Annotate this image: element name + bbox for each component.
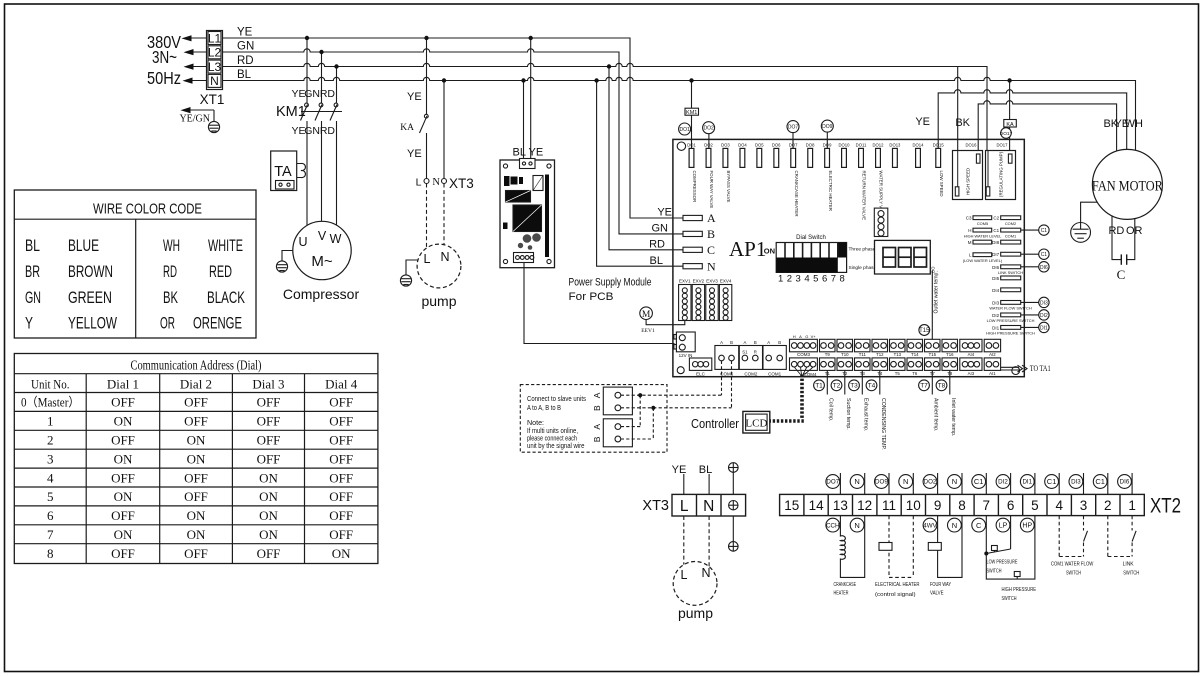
fan motor xyxy=(1092,149,1162,219)
connector DO11 xyxy=(856,143,867,221)
svg-text:T2: T2 xyxy=(833,383,841,390)
label CRANKCASE HEATER xyxy=(834,582,857,597)
svg-text:OFF: OFF xyxy=(329,433,353,448)
svg-text:If multi units online,: If multi units online, xyxy=(527,428,578,435)
svg-text:RD: RD xyxy=(1108,225,1124,237)
circled label C1 xyxy=(1039,249,1049,259)
svg-text:6: 6 xyxy=(47,508,54,523)
table headers xyxy=(31,377,358,392)
wire DO16 high speed riser xyxy=(957,67,959,188)
input terminal C3 xyxy=(966,216,992,226)
svg-text:DO4: DO4 xyxy=(738,143,747,148)
connector block COM1 xyxy=(763,340,786,377)
svg-text:OFF: OFF xyxy=(184,489,208,504)
svg-text:DI2: DI2 xyxy=(998,479,1008,486)
wire KM1 phase W RD drop xyxy=(336,67,338,104)
svg-text:ON: ON xyxy=(332,546,351,561)
wire BL stub xyxy=(708,474,710,494)
svg-text:XT2: XT2 xyxy=(1150,495,1181,518)
svg-text:CONDENSING TEMP.: CONDENSING TEMP. xyxy=(880,398,886,450)
svg-text:Y: Y xyxy=(25,315,33,333)
svg-text:Suction temp.: Suction temp. xyxy=(845,398,851,430)
connector COM3 xyxy=(790,334,818,357)
svg-text:SWITCH: SWITCH xyxy=(1002,596,1017,602)
svg-text:SWITCH: SWITCH xyxy=(987,569,1002,575)
module capacitors xyxy=(518,233,541,250)
svg-text:N: N xyxy=(703,498,714,515)
svg-text:OFF: OFF xyxy=(329,508,353,523)
circled label T2 xyxy=(831,380,842,391)
svg-text:RD: RD xyxy=(320,88,336,100)
svg-text:B: B xyxy=(778,340,781,345)
svg-text:KA: KA xyxy=(400,123,414,133)
svg-text:DI2: DI2 xyxy=(992,313,1000,318)
connector DO12 xyxy=(873,143,885,219)
communication address table xyxy=(14,354,378,564)
svg-text:OFF: OFF xyxy=(184,395,208,410)
connector EEV5 4-pin xyxy=(874,208,888,236)
circled label DO9 xyxy=(821,120,833,148)
svg-text:C: C xyxy=(707,243,715,257)
svg-text:For PCB: For PCB xyxy=(569,291,614,303)
XT2 stub above cell 5 xyxy=(1034,473,1036,494)
svg-text:A: A xyxy=(707,211,716,225)
connector block EXV1-EXV4 xyxy=(679,278,732,320)
svg-text:OFF: OFF xyxy=(257,546,281,561)
fan ground wire xyxy=(1081,202,1098,222)
svg-text:DO17: DO17 xyxy=(997,143,1009,148)
labels YE BL xyxy=(672,464,713,476)
svg-text:Power Supply Module: Power Supply Module xyxy=(569,277,652,289)
relay box KM1 on DO1 wire xyxy=(685,108,699,116)
junction dot RD-C xyxy=(607,64,611,68)
module input connector xyxy=(520,159,536,169)
svg-text:RD: RD xyxy=(237,55,254,67)
pump motor dashed circle xyxy=(417,244,461,288)
pump terminals L N xyxy=(424,250,450,266)
connector DO10 xyxy=(839,143,851,168)
connector DO13 xyxy=(889,143,901,168)
XT2 stub above cell 7 xyxy=(985,473,987,494)
connector T6 xyxy=(907,358,923,376)
input terminal H xyxy=(964,228,1002,238)
fan ground symbol xyxy=(1071,223,1091,243)
svg-text:XT3: XT3 xyxy=(642,498,669,514)
7-segment display xyxy=(875,240,936,274)
svg-text:DO7: DO7 xyxy=(789,143,798,148)
svg-text:DI8: DI8 xyxy=(992,240,1000,245)
svg-text:COM1: COM1 xyxy=(768,372,781,377)
svg-text:T9: T9 xyxy=(825,352,831,357)
connector block COM2 xyxy=(739,340,762,377)
svg-text:DO9: DO9 xyxy=(823,143,832,148)
sensor wire T1 xyxy=(826,370,828,394)
svg-text:OFF: OFF xyxy=(111,433,135,448)
svg-text:50Hz: 50Hz xyxy=(147,68,181,88)
pump ground wire xyxy=(406,260,418,275)
electrical heater relay box xyxy=(879,543,892,551)
circled label N below cell 12 xyxy=(850,518,864,532)
wire fan BK line xyxy=(978,101,1116,155)
svg-text:COM5: COM5 xyxy=(977,221,988,226)
svg-text:COM1: COM1 xyxy=(1005,233,1016,238)
svg-text:N: N xyxy=(903,477,908,486)
PE symbol lower xyxy=(729,542,739,552)
wire L3 RD bus xyxy=(223,63,988,187)
svg-text:HIGH SPEED: HIGH SPEED xyxy=(966,168,971,195)
pump motor 2 dashed circle xyxy=(673,562,717,606)
HP switch symbol xyxy=(1014,572,1020,580)
svg-text:12: 12 xyxy=(857,498,872,513)
XT2 stub above cell 9 xyxy=(937,473,939,494)
svg-text:L3: L3 xyxy=(208,60,222,74)
svg-text:Unit No.: Unit No. xyxy=(31,377,70,392)
junction dot L3-W xyxy=(334,64,338,68)
svg-text:4WV: 4WV xyxy=(923,522,937,529)
svg-text:XT3: XT3 xyxy=(449,176,474,191)
svg-text:6: 6 xyxy=(1007,498,1015,513)
shielded cable COM4 to LCD xyxy=(771,375,804,422)
DIP switch body xyxy=(776,243,846,273)
connector DO4 xyxy=(738,143,747,168)
svg-text:ON: ON xyxy=(114,489,133,504)
svg-text:T1: T1 xyxy=(815,383,823,390)
input terminal DI2 xyxy=(987,313,1035,323)
circled label 4WV below cell 9 xyxy=(923,518,937,532)
svg-text:H: H xyxy=(968,228,971,233)
sensor wire T15 xyxy=(931,271,933,340)
svg-text:COM4: COM4 xyxy=(803,372,816,377)
svg-text:DO1: DO1 xyxy=(687,143,696,148)
svg-text:CRANKCASE HEATER: CRANKCASE HEATER xyxy=(794,171,799,217)
arrow L2 xyxy=(184,49,207,55)
svg-text:3N~: 3N~ xyxy=(152,47,177,67)
junction dot LP/HP xyxy=(984,552,988,556)
XT2 stub above cell 12 xyxy=(864,473,866,494)
svg-text:T13: T13 xyxy=(894,352,902,357)
svg-text:pump: pump xyxy=(678,605,713,621)
svg-text:(REGULATING PUMP): (REGULATING PUMP) xyxy=(999,151,1004,197)
svg-text:YE/GN: YE/GN xyxy=(179,114,210,125)
high pressure switch circuit xyxy=(986,516,1035,580)
wire KA coil DO17 drop xyxy=(1009,81,1011,155)
svg-text:T15: T15 xyxy=(929,352,937,357)
svg-text:3: 3 xyxy=(796,274,801,285)
svg-text:U: U xyxy=(298,235,307,249)
table data rows xyxy=(21,395,353,561)
svg-text:B: B xyxy=(592,405,602,411)
display LCD xyxy=(743,411,770,433)
svg-text:EXV4: EXV4 xyxy=(720,278,732,283)
wire L1 YE bus xyxy=(223,38,684,218)
wire YE stub xyxy=(683,474,685,494)
connector T12 xyxy=(872,339,888,357)
svg-text:OFF: OFF xyxy=(111,470,135,485)
connector 12V IN xyxy=(674,332,695,358)
svg-text:14: 14 xyxy=(809,498,825,513)
svg-text:0（Master）: 0（Master） xyxy=(21,396,80,410)
svg-text:AP1: AP1 xyxy=(729,237,766,261)
capacitor C plates xyxy=(1121,254,1126,264)
svg-text:ELECTRICAL HEATER: ELECTRICAL HEATER xyxy=(875,582,920,588)
svg-text:5: 5 xyxy=(47,489,54,504)
svg-text:LINK: LINK xyxy=(1123,562,1134,568)
connector DO2 xyxy=(704,143,714,209)
svg-text:EXV2: EXV2 xyxy=(693,278,705,283)
svg-text:KA: KA xyxy=(1006,122,1014,128)
svg-text:BL: BL xyxy=(237,69,252,81)
junction dot BL-N xyxy=(594,78,598,82)
svg-text:AI1: AI1 xyxy=(989,371,996,376)
circled label T7 xyxy=(919,380,930,391)
svg-text:DO7: DO7 xyxy=(788,125,799,131)
connector COM4 xyxy=(790,358,818,377)
svg-text:W: W xyxy=(330,232,342,246)
XT3 PE cell symbol xyxy=(729,501,738,510)
connector AI1 xyxy=(984,358,1000,376)
svg-text:COM2: COM2 xyxy=(744,372,757,377)
circled label DI6 xyxy=(1039,262,1049,272)
connector DO9 xyxy=(823,143,833,211)
circled label T15 xyxy=(919,325,930,336)
svg-text:FOUR WAY: FOUR WAY xyxy=(930,582,951,588)
input terminal DI7 xyxy=(992,252,1021,257)
module transformer large xyxy=(513,205,542,232)
svg-text:Connect to slave units: Connect to slave units xyxy=(527,396,586,403)
svg-text:Exhaust temp.: Exhaust temp. xyxy=(862,398,868,431)
connector DO15 xyxy=(933,143,945,197)
junction dot BL-module xyxy=(521,78,525,82)
svg-text:Inlet water temp.: Inlet water temp. xyxy=(950,398,956,436)
svg-text:EXV1: EXV1 xyxy=(679,278,691,283)
input terminal DI6 xyxy=(992,265,1023,275)
dashed wire L to pump xyxy=(426,184,428,249)
relay box KA1 xyxy=(1004,120,1017,128)
wire L2 GN bus xyxy=(223,49,684,234)
svg-text:WH: WH xyxy=(1125,118,1143,130)
svg-text:7: 7 xyxy=(831,274,836,285)
XT2 stub above cell 3 xyxy=(1083,473,1085,494)
svg-text:N: N xyxy=(952,477,957,486)
svg-text:RD: RD xyxy=(649,239,665,251)
bus wire labels YE GN RD BL xyxy=(237,27,254,82)
svg-text:COM3: COM3 xyxy=(797,352,810,357)
svg-text:LOW PRESSURE: LOW PRESSURE xyxy=(987,560,1018,566)
svg-text:OFF: OFF xyxy=(111,508,135,523)
XT2 stub above cell 13 xyxy=(839,473,841,494)
wire module YE drop xyxy=(530,38,532,159)
svg-text:10: 10 xyxy=(906,498,921,513)
svg-text:Dial 4: Dial 4 xyxy=(325,377,358,392)
fan capacitor wires xyxy=(1112,216,1135,260)
module output connector xyxy=(514,253,534,263)
svg-text:Coil temp.: Coil temp. xyxy=(827,398,833,421)
svg-text:A: A xyxy=(592,424,602,430)
svg-text:DI3: DI3 xyxy=(1071,479,1081,486)
svg-text:T14: T14 xyxy=(911,352,919,357)
svg-text:AI4: AI4 xyxy=(968,352,975,357)
control board AP1 outline xyxy=(673,139,1024,376)
svg-text:Compressor: Compressor xyxy=(283,286,360,302)
XT3 ground wire down xyxy=(732,516,734,542)
svg-text:YE: YE xyxy=(237,27,253,39)
svg-text:DO9: DO9 xyxy=(875,479,888,486)
svg-text:13: 13 xyxy=(833,498,848,513)
svg-text:1: 1 xyxy=(778,274,783,285)
svg-text:(control signal): (control signal) xyxy=(875,592,916,598)
connector T7 xyxy=(925,358,941,376)
svg-text:ON: ON xyxy=(187,508,206,523)
svg-text:4: 4 xyxy=(47,470,54,485)
svg-text:pump: pump xyxy=(421,293,456,309)
svg-text:FOUR WAY VALVE: FOUR WAY VALVE xyxy=(709,171,714,209)
PE arrow and wire xyxy=(181,107,215,122)
connector DO8 xyxy=(806,143,815,168)
circled label DO2 xyxy=(703,122,715,149)
wire KM1 phase V GN drop xyxy=(321,52,323,103)
XT1 pin labels L1 L2 L3 N xyxy=(208,31,222,88)
circled label DI2 xyxy=(1039,310,1049,320)
svg-text:3: 3 xyxy=(1080,498,1088,513)
svg-text:DO17: DO17 xyxy=(1000,131,1013,137)
connector T15 xyxy=(925,339,941,357)
circled label T1 xyxy=(814,380,825,391)
svg-text:OFF: OFF xyxy=(257,414,281,429)
svg-text:KM1: KM1 xyxy=(276,104,306,120)
XT2 stub above cell 2 xyxy=(1107,473,1109,494)
svg-text:DO3: DO3 xyxy=(721,143,730,148)
svg-text:M: M xyxy=(642,310,651,320)
circled label DI3 xyxy=(1039,297,1049,307)
arrow L1 xyxy=(182,35,207,41)
sensor wire T3 xyxy=(861,370,863,394)
svg-text:V+: V+ xyxy=(811,334,817,339)
labels BK YE WH xyxy=(1103,118,1143,130)
svg-text:Note:: Note: xyxy=(527,420,544,427)
svg-text:DO6: DO6 xyxy=(772,143,781,148)
svg-text:ORENGE: ORENGE xyxy=(193,315,242,333)
svg-text:C1: C1 xyxy=(1047,477,1057,486)
terminal block XT1 xyxy=(207,31,223,90)
module corner holes xyxy=(503,164,551,264)
wire N BL bus xyxy=(223,77,1136,150)
link switch circuit xyxy=(1108,516,1132,557)
wire to circled DI1 xyxy=(1021,326,1039,328)
terminal N of AP1 xyxy=(683,259,716,273)
svg-text:WH: WH xyxy=(163,237,180,255)
svg-text:OFF: OFF xyxy=(111,395,135,410)
svg-text:T7: T7 xyxy=(920,383,928,390)
svg-text:DO2: DO2 xyxy=(924,479,937,486)
circled label T3 xyxy=(849,380,860,391)
svg-text:B: B xyxy=(707,227,715,241)
svg-text:LCD: LCD xyxy=(745,418,767,430)
svg-text:B: B xyxy=(730,340,733,345)
relay contact KA xyxy=(420,114,429,178)
terminal strip XT2 xyxy=(780,494,1145,515)
svg-text:DI2: DI2 xyxy=(1040,313,1048,319)
svg-text:C: C xyxy=(976,521,982,530)
connector T14 xyxy=(907,339,923,357)
svg-text:DO12: DO12 xyxy=(873,143,885,148)
relay module DO17 regulating pump xyxy=(986,143,1016,200)
junction dot L2-V xyxy=(319,50,323,54)
svg-text:ON: ON xyxy=(259,527,278,542)
sensor wire T2 xyxy=(844,370,846,394)
module relay outline xyxy=(533,176,543,191)
labels YE GN RD above KM1 xyxy=(291,88,335,100)
svg-text:N: N xyxy=(432,177,440,188)
connector T1 xyxy=(820,358,836,376)
svg-text:C2: C2 xyxy=(993,216,999,221)
module component group small caps xyxy=(504,176,523,186)
dashed wires XT3 to pump xyxy=(684,516,709,567)
svg-text:RD: RD xyxy=(163,263,177,281)
circled label DO1 xyxy=(679,123,691,135)
circled label DI6 xyxy=(1118,475,1132,489)
svg-text:L1: L1 xyxy=(208,31,222,45)
connector T16 xyxy=(942,339,958,357)
svg-text:unit by the signal wire: unit by the signal wire xyxy=(527,443,585,450)
svg-text:DI4: DI4 xyxy=(992,288,1000,293)
circled label DI1 xyxy=(1039,322,1049,332)
svg-text:XT1: XT1 xyxy=(200,92,225,107)
svg-text:(LOW WATER LEVEL): (LOW WATER LEVEL) xyxy=(963,258,1003,263)
svg-text:HP: HP xyxy=(1022,523,1032,530)
svg-text:N: N xyxy=(701,566,710,580)
four way valve circuit xyxy=(938,516,962,578)
svg-text:HIGH PRESSURE SWITCH: HIGH PRESSURE SWITCH xyxy=(986,331,1035,336)
svg-text:DO5: DO5 xyxy=(755,143,764,148)
XT2 stub above cell 6 xyxy=(1010,473,1012,494)
junction dot BL-DO17 xyxy=(1007,78,1011,82)
svg-text:A: A xyxy=(767,340,770,345)
connector DO7 xyxy=(789,143,799,217)
connector DO5 xyxy=(755,143,764,168)
svg-text:YE: YE xyxy=(657,207,672,219)
circled label DO17 on wire xyxy=(1000,128,1013,139)
link switch blade xyxy=(1132,531,1136,542)
svg-text:OFF: OFF xyxy=(329,527,353,542)
input terminal M xyxy=(968,240,992,245)
svg-text:COM1 WATER FLOW: COM1 WATER FLOW xyxy=(1051,562,1094,568)
svg-text:T6: T6 xyxy=(912,371,918,376)
pump 2 terminals L N xyxy=(681,566,711,582)
svg-text:ON: ON xyxy=(259,489,278,504)
svg-text:DO1: DO1 xyxy=(679,127,690,133)
svg-text:OFF: OFF xyxy=(329,395,353,410)
junction dot N-XT3 xyxy=(442,78,446,82)
svg-text:DI1: DI1 xyxy=(992,325,1000,330)
svg-text:DI1: DI1 xyxy=(1022,479,1032,486)
wire to circled DI2 xyxy=(1021,314,1039,316)
svg-text:TA: TA xyxy=(274,164,292,180)
four way valve coil box xyxy=(928,543,941,551)
terminal N circle xyxy=(442,179,447,184)
svg-text:8: 8 xyxy=(958,498,966,513)
svg-text:BL: BL xyxy=(650,255,663,267)
svg-text:1: 1 xyxy=(1128,498,1136,513)
svg-text:OR: OR xyxy=(1126,225,1143,237)
svg-text:EXV3: EXV3 xyxy=(706,278,718,283)
svg-text:C1: C1 xyxy=(974,477,984,486)
svg-text:WHITE: WHITE xyxy=(208,237,243,255)
connector T3 xyxy=(855,358,871,376)
input terminal DI8 xyxy=(992,240,1021,245)
XT3 ground wire up xyxy=(732,472,734,494)
svg-text:A to A, B to B: A to A, B to B xyxy=(527,405,561,412)
wire TO TA1 xyxy=(1001,365,1027,372)
